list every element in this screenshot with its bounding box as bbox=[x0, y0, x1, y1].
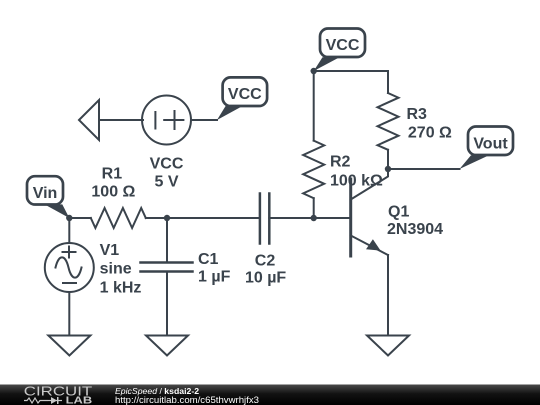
wire R1 to node bbox=[146, 217, 167, 219]
capacitor C2 bbox=[260, 194, 269, 244]
svg-text:VCC: VCC bbox=[326, 37, 360, 54]
wire node down to C1 bbox=[166, 218, 168, 263]
node at VCC top bbox=[311, 68, 317, 74]
ground under Q1 emitter bbox=[367, 336, 409, 356]
label C2 10uF bbox=[245, 253, 286, 287]
ground under C1 bbox=[146, 336, 188, 356]
svg-text:2N3904: 2N3904 bbox=[387, 221, 443, 238]
svg-text:1 µF: 1 µF bbox=[198, 269, 231, 286]
svg-text:270 Ω: 270 Ω bbox=[408, 125, 452, 142]
svg-text:1 kHz: 1 kHz bbox=[100, 280, 142, 297]
svg-text:5 V: 5 V bbox=[154, 174, 178, 191]
svg-text:Vin: Vin bbox=[33, 185, 58, 202]
resistor R3 bbox=[378, 93, 399, 150]
node at base bbox=[311, 215, 317, 221]
node after R1 bbox=[164, 215, 170, 221]
resistor R2 bbox=[303, 141, 324, 199]
net flag VCC (at source) bbox=[217, 77, 267, 120]
wire VCC node down to R2 bbox=[313, 71, 315, 141]
label C1 1uF bbox=[198, 251, 231, 286]
net flag Vout bbox=[460, 127, 514, 170]
node at collector bbox=[385, 166, 391, 172]
label VCC 5V bbox=[150, 156, 184, 191]
svg-text:100 Ω: 100 Ω bbox=[91, 184, 135, 201]
label R2 100k bbox=[330, 154, 383, 190]
label Q1 2N3904 bbox=[387, 203, 443, 238]
capacitor C1 bbox=[141, 263, 193, 272]
svg-text:R1: R1 bbox=[102, 166, 123, 183]
ground arrow (left pointer of VCC source) bbox=[79, 100, 99, 140]
net flag Vin bbox=[27, 176, 69, 218]
svg-text:VCC: VCC bbox=[150, 156, 184, 173]
wire emitter to ground bbox=[387, 255, 389, 336]
ground under V1 bbox=[48, 336, 90, 356]
svg-text:LAB: LAB bbox=[66, 395, 93, 405]
wire base node to Q1 base bbox=[314, 217, 350, 219]
wire ground to VCC source bbox=[99, 119, 143, 121]
label R3 270ohm bbox=[407, 106, 453, 142]
resistor R1 bbox=[91, 208, 146, 228]
voltage source VCC (5 V) bbox=[142, 96, 191, 145]
svg-text:R3: R3 bbox=[407, 106, 428, 123]
wire C1 to ground bbox=[166, 272, 168, 336]
svg-text:10 µF: 10 µF bbox=[245, 270, 286, 287]
transistor Q1 2N3904 bbox=[351, 169, 388, 256]
wire VCC node to R3 bbox=[314, 71, 388, 93]
svg-text:http://circuitlab.com/c65thvwr: http://circuitlab.com/c65thvwrhjfx3 bbox=[115, 395, 259, 405]
footer title bbox=[115, 386, 259, 405]
circuitlab logo bbox=[24, 384, 93, 405]
wire VCC source to VCC flag bbox=[191, 119, 217, 121]
wire Vin node down to V1 bbox=[68, 218, 70, 243]
svg-text:Q1: Q1 bbox=[388, 203, 409, 220]
node at Vin bbox=[66, 215, 72, 221]
net flag VCC (top) bbox=[314, 29, 365, 72]
wire Vin node to R1 bbox=[69, 217, 91, 219]
wire R3 to collector node bbox=[387, 150, 389, 169]
wire R2 to base node bbox=[313, 198, 315, 218]
voltage source V1 (sine) bbox=[45, 243, 94, 292]
label R1 100ohm bbox=[91, 166, 135, 201]
wire V1 to ground bbox=[68, 292, 70, 336]
svg-text:V1: V1 bbox=[100, 242, 120, 259]
wire node to C2 bbox=[167, 217, 260, 219]
wire C2 to base node bbox=[269, 217, 313, 219]
svg-text:C2: C2 bbox=[255, 253, 276, 270]
svg-text:VCC: VCC bbox=[228, 86, 262, 103]
wire collector node to Vout bbox=[388, 168, 460, 170]
label V1 sine 1kHz bbox=[100, 242, 142, 297]
svg-text:Vout: Vout bbox=[473, 136, 508, 153]
svg-text:R2: R2 bbox=[330, 154, 351, 171]
svg-text:C1: C1 bbox=[198, 251, 219, 268]
svg-text:100 kΩ: 100 kΩ bbox=[330, 173, 383, 190]
svg-text:sine: sine bbox=[100, 261, 132, 278]
